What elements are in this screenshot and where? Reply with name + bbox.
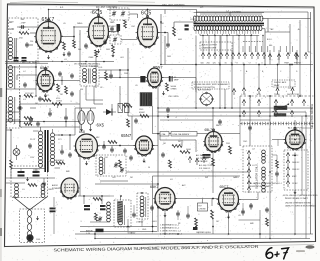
svg-text:5Y3: 5Y3 <box>58 139 61 141</box>
audio output changeover box <box>200 42 232 50</box>
wire bottom bus 1 <box>95 238 310 240</box>
wire x132 vertical <box>131 116 133 140</box>
aerial bar (black) <box>96 229 104 233</box>
band coil L6 <box>119 204 123 208</box>
bus bracket y35.5 <box>200 35 259 37</box>
capacitor C16 <box>68 153 72 155</box>
svg-text:456: 456 <box>80 89 83 91</box>
ground padder <box>112 53 114 55</box>
resistor R456 <box>140 115 149 118</box>
tube V4 6SA7 <box>37 70 53 91</box>
filter capacitor pair 1 <box>18 171 25 173</box>
svg-text:A.F. 400 CYCLE: A.F. 400 CYCLE <box>199 164 214 167</box>
verticals with chevrons right of changeover box <box>269 50 271 65</box>
svg-text:POWER: POWER <box>52 188 60 190</box>
tuning coil L4 lower winding <box>194 26 197 31</box>
resistor R12 <box>10 160 13 169</box>
wire funnel to bottom bus <box>53 197 55 207</box>
shield box (antenna coil, dashed) <box>9 18 39 62</box>
ground V7 <box>143 159 145 161</box>
wire B2 net <box>99 69 128 71</box>
wire pair y60 <box>5 61 114 63</box>
capacitor Cx136 <box>134 119 138 121</box>
ground V11 <box>294 153 296 155</box>
speaker cone funnel <box>13 197 48 210</box>
svg-text:OSC.: OSC. <box>243 141 248 143</box>
ground right of cord <box>37 216 39 218</box>
black cap below V13 <box>203 154 211 156</box>
svg-text:110V.: 110V. <box>36 239 41 241</box>
switch contacts mid <box>188 157 191 160</box>
svg-text:65C7: 65C7 <box>220 185 229 189</box>
wire x259 vertical <box>258 65 260 88</box>
svg-text:65N7: 65N7 <box>153 64 163 69</box>
field winding L9 <box>41 184 45 188</box>
svg-text:L BAND: L BAND <box>136 221 144 224</box>
wire filter caps top <box>13 168 45 170</box>
wire bottom bus 2 <box>75 233 313 235</box>
top mid outside frame mark <box>118 1 155 3</box>
svg-text:50M: 50M <box>106 49 110 51</box>
volume control bar 1 (dark) <box>274 106 287 110</box>
wire y104 left short <box>20 103 50 105</box>
capacitor C1 <box>21 25 23 29</box>
svg-text:3M: 3M <box>178 141 181 143</box>
svg-text:B.P.: B.P. <box>60 7 64 9</box>
svg-text:GND: GND <box>142 229 147 231</box>
resistor R2 (V1 cathode) <box>63 42 66 50</box>
svg-text:1000 KC: 1000 KC <box>292 162 300 164</box>
svg-text:PILOT: PILOT <box>30 139 36 141</box>
tube V6 6K8 <box>76 134 98 158</box>
svg-text:600 KC: 600 KC <box>292 155 299 157</box>
svg-text:115V: 115V <box>30 157 35 159</box>
resistor R19 <box>212 158 215 166</box>
svg-text:OSC. MOD.: OSC. MOD. <box>168 96 180 98</box>
svg-text:.25MF: .25MF <box>88 57 94 59</box>
svg-text:AVC: AVC <box>42 90 46 93</box>
vertical connectors to bottom bus <box>94 232 96 239</box>
resistor R13 (hum adj) <box>56 162 65 165</box>
IF T2 core lines <box>88 69 90 84</box>
note arrow <box>294 190 296 192</box>
verticals from coil taps to chevrons <box>202 36 204 53</box>
svg-text:NOTE: UNLESS OTHERWISE SPECIFI: NOTE: UNLESS OTHERWISE SPECIFIED <box>283 195 318 197</box>
line cord twisted pair <box>27 210 32 217</box>
capacitor C8 <box>166 43 170 45</box>
svg-text:40M: 40M <box>124 103 128 105</box>
capacitor C10 <box>23 83 27 85</box>
micro value labels scattered <box>10 19 301 231</box>
svg-text:UNLESS OTHERWISE SHOWN: UNLESS OTHERWISE SHOWN <box>285 203 312 205</box>
wire x300b vertical <box>299 65 301 97</box>
pilot lamp <box>13 149 20 156</box>
resistor R21 <box>211 210 214 219</box>
power transformer T1 primary winding <box>39 131 43 135</box>
left edge smudge 1 <box>0 88 2 97</box>
svg-text:65N7: 65N7 <box>121 133 132 138</box>
svg-text:R.F.: R.F. <box>199 206 203 208</box>
svg-text:PAD: PAD <box>110 21 115 24</box>
vertical bus x270 <box>269 96 271 190</box>
capacitor CD3 <box>275 172 279 174</box>
wire V2 plate to padder <box>109 31 119 33</box>
junction dots bottom <box>152 231 153 232</box>
shield box 2 (RF coil, dashed) <box>7 63 20 128</box>
ground V9 <box>164 213 166 215</box>
resistor R16 <box>172 145 182 148</box>
resistor R17 <box>180 151 190 154</box>
svg-text:VOLUME DELIVERY SWITCH GANGED: VOLUME DELIVERY SWITCH GANGED <box>194 83 229 86</box>
ground R2 <box>63 52 65 54</box>
capacitor CA2 <box>48 112 52 114</box>
junction dots top row <box>73 26 74 27</box>
capacitor C4 <box>84 44 88 46</box>
svg-text:2M: 2M <box>60 94 63 96</box>
wire V4 plate to IF T2 <box>54 80 80 82</box>
resistor R15 <box>119 160 122 168</box>
svg-text:1M: 1M <box>216 221 219 223</box>
black cap C26 <box>193 227 198 230</box>
svg-text:1ST DET: 1ST DET <box>108 26 117 28</box>
IF transformer T2 (dashed box) <box>80 66 99 86</box>
capacitor C21 <box>161 153 165 155</box>
left col extra dots <box>19 121 21 123</box>
wire left col x5.8 (inside border) <box>6 66 36 68</box>
capacitor C5 <box>103 40 107 42</box>
screen resistor R4 <box>95 50 98 57</box>
svg-text:R.F. ANT. CONTROL: R.F. ANT. CONTROL <box>96 6 118 9</box>
handwritten 6+7 mark <box>266 248 273 259</box>
capacitor C15 <box>60 150 64 152</box>
wire V3 top to coil top <box>148 9 197 11</box>
wire grid top <box>36 26 49 28</box>
svg-text:ANT: ANT <box>9 21 14 24</box>
wire V4 grid to coil <box>17 74 37 76</box>
svg-text:L.F. PADDER: L.F. PADDER <box>196 160 208 163</box>
label LINE CALIBRATE <box>171 132 197 137</box>
svg-text:.05: .05 <box>238 215 241 217</box>
junction dots C2 <box>219 107 221 109</box>
tuning coil L4 upper winding <box>193 16 196 21</box>
svg-text:RESISTORS ARE 1/2 WATT.: RESISTORS ARE 1/2 WATT. <box>285 197 309 200</box>
capacitor C28 (black) <box>100 205 106 207</box>
svg-text:400: 400 <box>269 45 272 47</box>
svg-text:B.F.O.: B.F.O. <box>267 39 273 41</box>
svg-text:OSC: OSC <box>104 157 109 159</box>
wire x80 vertical <box>79 90 81 130</box>
svg-text:50: 50 <box>148 167 150 169</box>
resistor RD1 <box>276 160 279 168</box>
band coil box (dashed) <box>114 200 131 227</box>
frame top double-line artifact <box>8 5 315 8</box>
paper left edge shading <box>0 0 2 261</box>
iron-core slug (black) <box>117 24 121 31</box>
wire bottom-left net <box>78 195 110 197</box>
svg-text:456KC: 456KC <box>139 112 146 114</box>
dashed tick bus y123.5 <box>240 123 314 125</box>
svg-text:CHOKE: CHOKE <box>199 209 207 211</box>
capacitor C18 <box>110 148 114 150</box>
svg-text:OSC. ANT. CONTROL: OSC. ANT. CONTROL <box>162 4 186 7</box>
svg-text:REAR: REAR <box>274 84 280 87</box>
wire V9 V10 bottom caps <box>177 210 179 212</box>
svg-text:AUDIO: AUDIO <box>52 184 59 187</box>
svg-text:2M: 2M <box>130 177 133 179</box>
wire y185 horizontals <box>95 183 158 185</box>
resistor R24 <box>95 213 98 221</box>
tube V3 6C5 <box>138 18 158 47</box>
svg-text:RESISTOR USE 1/2 WATT: RESISTOR USE 1/2 WATT <box>249 185 272 188</box>
long bus y108 <box>158 107 313 109</box>
capacitor C25 <box>249 204 253 206</box>
dashed selector line y96 <box>240 95 314 97</box>
wire left bottom column <box>10 130 12 160</box>
vertical bus x220 <box>219 36 221 109</box>
resistor RA1 <box>42 99 51 102</box>
capacitor C456 <box>166 108 170 110</box>
resistor Rx128 <box>127 119 130 127</box>
trimmer CT6 <box>98 217 101 219</box>
capacitor C11 <box>38 97 42 99</box>
tube V7 6SN7 <box>136 136 153 155</box>
tube V1 6SK7 <box>36 22 61 52</box>
wire ant box to V1 <box>17 26 36 28</box>
black caps bottom of ant box 2 <box>22 57 27 59</box>
black caps bottom of ant box <box>14 57 19 59</box>
filter resistor block 2 <box>125 104 130 113</box>
ground V1 <box>48 55 50 57</box>
vertical bus x232 <box>231 50 233 96</box>
svg-text:PHONO JACK: PHONO JACK <box>274 81 287 84</box>
svg-text:2: 2 <box>265 97 266 99</box>
wire x96 vertical <box>95 57 97 88</box>
resistor R1 <box>19 32 29 35</box>
svg-text:10M: 10M <box>167 56 171 58</box>
wire V1 cap to top bus <box>48 10 50 20</box>
svg-text:3. DETECTOR NO.1 L-3: 3. DETECTOR NO.1 L-3 <box>160 231 181 233</box>
ground V10 <box>228 215 230 217</box>
black core left of V5 <box>140 76 145 82</box>
resistor R14 <box>108 141 117 144</box>
T1 leads <box>40 127 42 131</box>
wire B4 net <box>80 226 157 228</box>
svg-text:6K8: 6K8 <box>79 130 85 134</box>
tube V13 (AF oscillator) <box>205 132 222 152</box>
osc coil winding A <box>262 150 266 154</box>
capacitor C23 <box>186 214 190 216</box>
resistor R18 <box>169 160 172 168</box>
label CAL box <box>160 132 169 137</box>
wire rectifier plumbing <box>81 108 83 111</box>
wire V5 to jack <box>162 77 197 79</box>
wire coil right end <box>262 18 268 20</box>
pencil smudge right of caption <box>296 250 305 252</box>
ground V2 <box>98 49 100 51</box>
wire row3 bus y133.7 <box>153 133 161 135</box>
svg-text:65K7: 65K7 <box>42 17 55 23</box>
top left outside frame mark <box>10 1 78 4</box>
wire V1 plate <box>61 36 74 38</box>
AF output jack <box>201 93 213 105</box>
wire mid net2 <box>249 124 251 127</box>
resistor RA2 <box>24 117 33 120</box>
svg-text:A.V.C.: A.V.C. <box>44 94 50 97</box>
volume pot arrow <box>52 103 62 106</box>
resistor RE1 <box>266 218 269 226</box>
resistor R40M <box>123 105 132 108</box>
svg-text:GND: GND <box>9 29 14 31</box>
svg-text:H.F. TRIMMER: H.F. TRIMMER <box>196 158 209 160</box>
vertical wire x165 <box>164 36 166 65</box>
rectifier V8a 6X5 <box>78 111 85 125</box>
resistor RB1 (B2) <box>105 72 108 80</box>
ground V5 <box>163 91 165 93</box>
tube V5 6SN7 <box>148 68 162 87</box>
resistor R7 <box>173 27 176 36</box>
black cap right of funnel <box>50 208 56 210</box>
left edge smudge 3 <box>0 228 2 236</box>
switch row 1b contacts right <box>286 53 289 56</box>
svg-text:L-2: L-2 <box>23 71 26 73</box>
svg-text:OSC: OSC <box>111 32 116 34</box>
bottom-right corner smudge <box>306 245 315 249</box>
wire midright y140 <box>160 139 196 141</box>
svg-text:L-9: L-9 <box>252 165 255 167</box>
osc coil winding B <box>262 167 266 171</box>
wire V7 right to cal <box>153 145 159 147</box>
wire V3 plate to coil <box>158 32 169 34</box>
chevron near box <box>232 89 235 92</box>
svg-text:40M: 40M <box>178 39 182 41</box>
capacitor C6 <box>110 27 114 29</box>
capacitor CD2 <box>248 126 252 128</box>
tuning coil core (heavy bars) <box>194 23 265 25</box>
wire y89 left short <box>6 88 36 90</box>
resistor R3 <box>73 40 76 48</box>
svg-text:DETECTOR: DETECTOR <box>287 94 299 96</box>
phono jack box (dashed) <box>272 80 295 87</box>
wire A3 net <box>11 183 28 185</box>
resistor R9 <box>57 84 60 92</box>
svg-text:TO SELECTOR SWITCH: TO SELECTOR SWITCH <box>194 87 216 89</box>
svg-text:SW: SW <box>205 177 208 179</box>
wire y172 bus <box>126 171 250 173</box>
long bus y64.5 <box>160 64 313 66</box>
wire y176 bus <box>153 175 241 177</box>
filter resistor block <box>118 104 123 113</box>
svg-text:25M: 25M <box>226 143 230 145</box>
junction dots row2 <box>61 80 62 81</box>
svg-text:2. ANTENNA NO.2 L-2: 2. ANTENNA NO.2 L-2 <box>160 227 179 230</box>
left edge smudge 2 <box>0 189 2 197</box>
dashed link y41.5 <box>243 41 263 43</box>
antenna coil L1 <box>9 38 13 42</box>
tube V11 6J5 oscillator <box>286 130 305 149</box>
wire V1-V2 coupling <box>74 26 88 28</box>
svg-text:.0001: .0001 <box>152 221 157 223</box>
IF transformer block (dark) <box>140 93 152 107</box>
band coil L7 <box>140 196 144 200</box>
bottom edge faint line <box>150 245 314 248</box>
capacitor CF2 <box>150 206 154 208</box>
caption text <box>53 244 258 253</box>
volume delivery note box <box>192 82 229 89</box>
selector contacts row B <box>242 100 245 103</box>
resistor RA3 <box>24 123 32 126</box>
trimmer CT4 <box>114 163 117 165</box>
wire x290 vertical <box>289 65 291 90</box>
trimmer capacitor CT3 <box>113 38 116 40</box>
wire x75 vertical <box>74 108 76 135</box>
RF coil L3 <box>9 97 13 101</box>
long bus y112 <box>158 111 306 113</box>
svg-text:6C5: 6C5 <box>141 11 152 17</box>
right notes box (dashed) <box>284 150 308 190</box>
capacitor C20 <box>129 156 133 158</box>
ground V8b <box>90 127 92 129</box>
tube V12 (small) <box>61 178 78 198</box>
coil top line and label <box>194 12 265 14</box>
svg-text:OSC: OSC <box>93 217 98 219</box>
resistor R23 <box>93 198 102 201</box>
capacitor C13 <box>18 106 20 110</box>
svg-text:1. ANTENNA NO.1 L-1: 1. ANTENNA NO.1 L-1 <box>160 224 179 227</box>
long vertical x302 lower <box>301 116 303 195</box>
svg-text:MMF: MMF <box>174 80 179 82</box>
svg-text:1ST. DET.: 1ST. DET. <box>25 93 34 95</box>
svg-text:.05: .05 <box>63 23 66 25</box>
wire y121 left <box>6 121 80 123</box>
band coil 2 box (dashed) <box>137 193 148 219</box>
svg-text:.01: .01 <box>64 59 67 61</box>
svg-text:OSC: OSC <box>131 26 136 28</box>
oscillator coils box (dashed) <box>243 146 272 192</box>
svg-text:.05: .05 <box>135 85 138 87</box>
RF choke box <box>198 203 208 211</box>
vertical bus x128 <box>127 48 129 116</box>
osc coil box (dashed) <box>96 155 126 176</box>
capacitor CA3 <box>64 116 68 118</box>
ground between filter caps <box>27 177 29 179</box>
svg-text:6 MC: 6 MC <box>292 176 297 178</box>
svg-text:L.W.: L.W. <box>242 94 247 96</box>
capacitor CD1 <box>218 120 222 122</box>
capacitor C14 <box>28 144 32 146</box>
resistor RC1 (left col bottom) <box>28 184 37 187</box>
wire D3 net <box>272 154 277 156</box>
svg-text:3: 3 <box>283 97 284 99</box>
IF T2 secondary <box>93 69 97 73</box>
resistor R22 <box>195 218 198 226</box>
svg-text:COUPL: COUPL <box>190 19 197 21</box>
capacitor C24 <box>241 210 245 212</box>
wire x225 x232 verticals <box>224 89 226 108</box>
tube V2 6C5 <box>89 17 109 46</box>
svg-text:4: 4 <box>298 97 299 99</box>
capacitor CE1 <box>265 208 269 210</box>
svg-text:H.T.: H.T. <box>200 7 204 9</box>
svg-text:1M: 1M <box>163 143 166 145</box>
capacitor C12 <box>70 92 74 94</box>
svg-text:HUM ADJ.: HUM ADJ. <box>55 159 65 162</box>
capacitor CA1 <box>29 118 33 120</box>
svg-text:R.F. 1000 KC: R.F. 1000 KC <box>199 168 211 170</box>
vertical wire x161 <box>160 14 162 65</box>
selector contacts row A <box>242 88 245 91</box>
ground V4 <box>45 94 47 96</box>
volume control bar 2 (dark) <box>274 114 286 117</box>
